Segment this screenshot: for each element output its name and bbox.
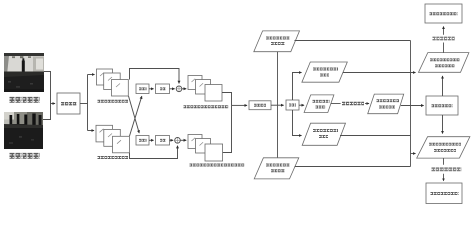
- parallelogram P6: [419, 53, 469, 73]
- parallelogram P4 refine1 bottom: [302, 123, 345, 145]
- box registration: [57, 93, 80, 114]
- wire C to F: [271, 104, 284, 106]
- wire adder2 to stack2b: [180, 139, 186, 141]
- wire G down to P7: [442, 115, 444, 134]
- wire skip row1: [130, 69, 180, 84]
- wire F down to P4: [293, 110, 302, 136]
- photo camera2 image: [4, 112, 43, 149]
- label camera2: [10, 153, 41, 159]
- stack2b images row2: [188, 135, 223, 162]
- wire P8 bottom long line: [295, 166, 411, 168]
- box B row1: [156, 84, 170, 94]
- wire P7 down to H2 with label: [443, 158, 445, 165]
- box F fusion: [286, 100, 299, 110]
- box E row2: [156, 136, 170, 146]
- wire cross down: [129, 96, 140, 133]
- parallelogram P3 refine1 top: [302, 62, 347, 82]
- wire P1 to P5 with label: [331, 103, 341, 105]
- parallelogram P9 RU top: [254, 31, 300, 52]
- label stack2a: [184, 105, 229, 108]
- wire B to adder1: [170, 88, 175, 90]
- wire skip row2: [130, 146, 178, 159]
- wire splitter to stack1a: [88, 74, 95, 76]
- wire P4 to bus: [340, 135, 411, 137]
- wire G up to P6: [442, 76, 444, 96]
- wire P9 top long line: [295, 40, 411, 42]
- box C ucpn: [249, 101, 271, 110]
- wire box1 to splitter: [80, 103, 88, 105]
- wire merge to boxC: [232, 104, 248, 106]
- wire stack2b out: [223, 105, 232, 152]
- wire D to E: [149, 139, 154, 141]
- parallelogram P5: [368, 94, 404, 114]
- label camera1: [10, 97, 41, 103]
- wire P9 down to P8: [277, 52, 279, 158]
- wire photo1 to merge: [44, 72, 51, 104]
- stack1a images row1: [97, 69, 129, 96]
- photo camera1 image: [4, 53, 44, 92]
- label stack2b: [190, 164, 245, 167]
- box G: [426, 96, 458, 115]
- wire E to adder2: [170, 139, 174, 141]
- adder1: [176, 86, 182, 92]
- wire merge to box1: [51, 103, 56, 105]
- wire photo2 to merge: [43, 104, 51, 120]
- box D row2: [136, 136, 149, 146]
- parallelogram P1: [304, 95, 334, 113]
- label stack1a: [98, 100, 129, 103]
- box A row1: [136, 84, 149, 94]
- wire bus to P7 arrow: [411, 153, 416, 155]
- wire adder1 to stack2a: [182, 88, 186, 90]
- wire stack2a out: [222, 93, 232, 106]
- parallelogram P8 RU bottom: [254, 158, 299, 179]
- wire splitter vertical: [87, 75, 89, 131]
- box H final output1: [425, 4, 462, 23]
- wire right vertical bus: [410, 41, 412, 167]
- parallelogram P7: [417, 137, 470, 158]
- wire F up to P3: [293, 73, 302, 101]
- stack2a images row1: [188, 76, 222, 102]
- box H2 final output2: [426, 183, 462, 204]
- stack1b images row2: [96, 125, 129, 153]
- wire cross up: [130, 96, 142, 136]
- label stack1b: [98, 156, 129, 159]
- wire A to B: [149, 88, 154, 90]
- wire P5 to G: [401, 105, 424, 107]
- adder2: [175, 138, 181, 144]
- wire P3 to P6: [343, 72, 416, 74]
- wire F to P1: [299, 104, 304, 106]
- wire P6 up to H with label: [443, 43, 445, 53]
- wire splitter to stack1b: [88, 130, 95, 132]
